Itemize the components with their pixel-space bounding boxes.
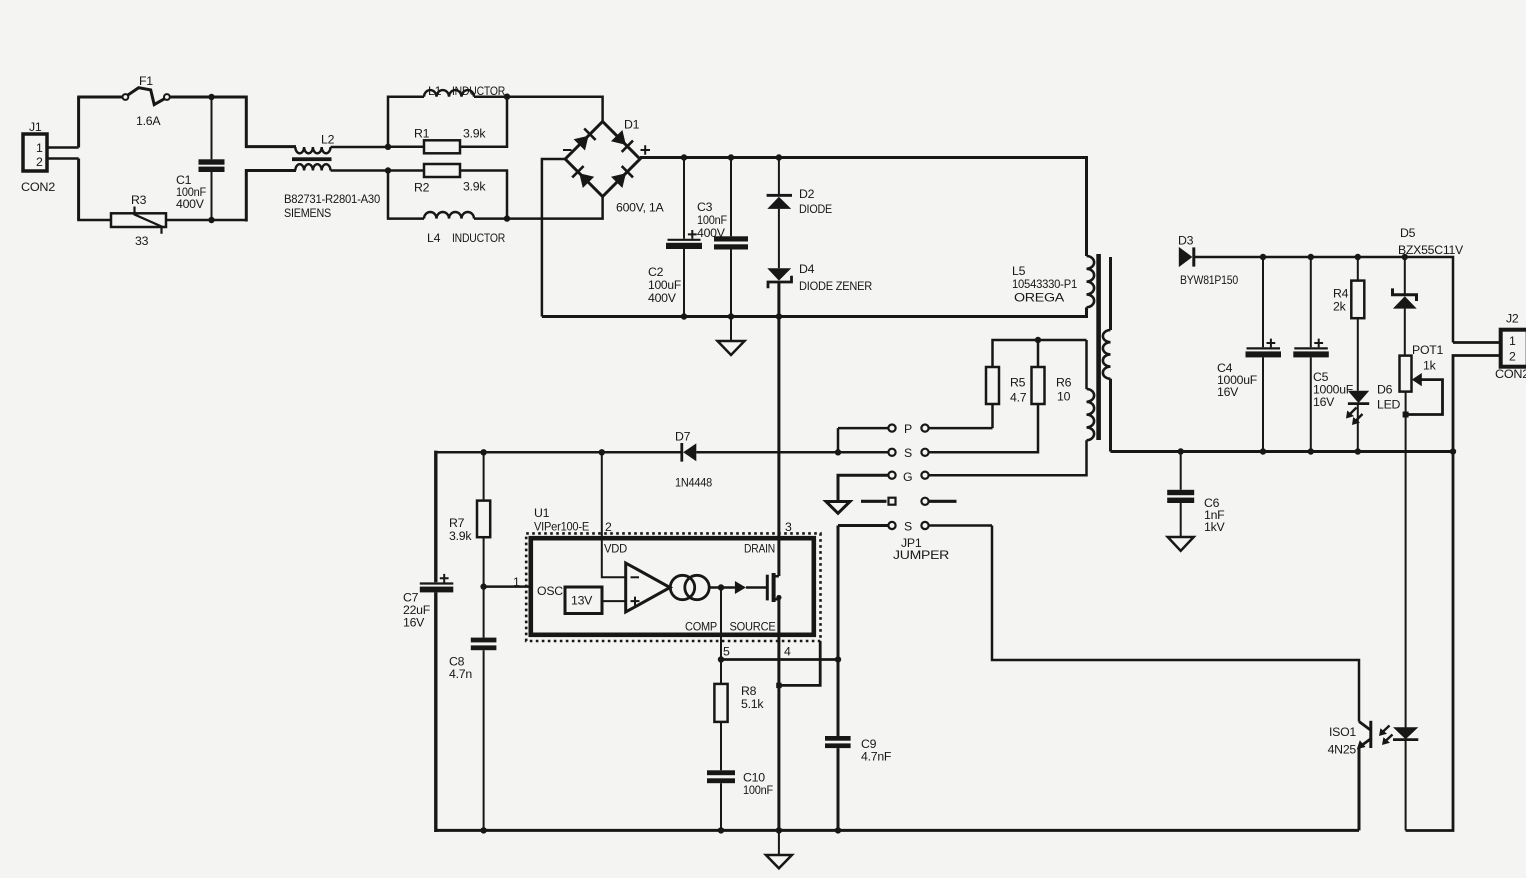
node junction C8 bottom xyxy=(480,827,486,833)
wire L4 to bridge bottom corner xyxy=(474,197,603,219)
potentiometer POT1 1k xyxy=(1400,343,1444,418)
svg-text:LED: LED xyxy=(1377,398,1401,412)
wire POT1 bottom to opto LED xyxy=(1405,415,1407,728)
transformer L5 core xyxy=(1096,254,1101,440)
wire R3 to C1 bottom node and corner x246 xyxy=(166,219,246,222)
ground below G row xyxy=(826,502,850,514)
svg-text:5: 5 xyxy=(723,645,730,659)
op-amp U1 error amplifier xyxy=(626,563,670,612)
svg-text:L5: L5 xyxy=(1012,264,1026,278)
capacitor C6 1nF 1kV xyxy=(1167,452,1225,538)
node junction C5 bottom xyxy=(1308,448,1314,454)
connector J2 (CON2) xyxy=(1495,312,1526,382)
node junction C1 bottom xyxy=(208,217,214,223)
jumper JP1 row S2 xyxy=(838,520,992,534)
svg-text:R1: R1 xyxy=(414,127,430,141)
wire bottom row J1 to R3 xyxy=(77,219,111,222)
node junction D5 top xyxy=(1402,254,1408,260)
svg-text:S: S xyxy=(904,446,912,460)
node junction C9 top xyxy=(835,656,841,662)
svg-text:16V: 16V xyxy=(1217,385,1239,399)
svg-text:INDUCTOR: INDUCTOR xyxy=(452,231,505,245)
node junction C3 top xyxy=(728,154,734,160)
node junction source bottom xyxy=(776,827,782,833)
inductor L4 xyxy=(424,212,505,245)
svg-text:R5: R5 xyxy=(1010,376,1026,390)
svg-text:1: 1 xyxy=(513,575,520,589)
current source symbol xyxy=(670,575,735,599)
node junction pin5/R8 xyxy=(718,656,724,662)
svg-text:400V: 400V xyxy=(176,197,205,211)
svg-text:COMP: COMP xyxy=(685,620,717,634)
transformer L5 auxiliary winding xyxy=(929,340,1095,475)
node junction R7 top xyxy=(480,449,486,455)
bridge rectifier D1 600V 1A xyxy=(563,118,665,215)
svg-text:4.7: 4.7 xyxy=(1010,391,1027,405)
inductor L1 xyxy=(424,84,505,98)
svg-text:BZX55C11V: BZX55C11V xyxy=(1398,243,1464,257)
ground on bottom rail xyxy=(766,830,792,868)
MOSFET U1 output transistor xyxy=(767,573,781,602)
wire L2 top output to filter node xyxy=(331,146,388,149)
svg-text:10543330-P1: 10543330-P1 xyxy=(1012,277,1077,291)
capacitor C5 1000uF 16V xyxy=(1293,257,1353,452)
resistor R1 3.9k xyxy=(388,127,486,154)
node junction clamp top xyxy=(776,154,782,160)
svg-text:3.9k: 3.9k xyxy=(463,180,486,194)
capacitor C8 4.7n xyxy=(449,587,496,831)
ground below C3 xyxy=(718,317,745,356)
svg-text:JUMPER: JUMPER xyxy=(893,548,949,562)
svg-text:100nF: 100nF xyxy=(743,783,774,797)
svg-text:C2: C2 xyxy=(648,265,664,279)
svg-text:G: G xyxy=(903,470,912,484)
node junction filter bottom left xyxy=(385,167,391,173)
wire L1 to bridge top corner xyxy=(474,97,603,122)
svg-text:4.7nF: 4.7nF xyxy=(861,750,892,764)
svg-text:R7: R7 xyxy=(449,516,465,530)
svg-text:3.9k: 3.9k xyxy=(449,529,472,543)
node junction C1 top xyxy=(208,94,214,100)
node junction C10 bottom xyxy=(718,827,724,833)
svg-text:D2: D2 xyxy=(799,187,815,201)
svg-text:R6: R6 xyxy=(1056,376,1072,390)
resistor R8 5.1k xyxy=(714,660,764,771)
wire MOSFET source to pin 4 xyxy=(777,599,780,830)
svg-text:VDD: VDD xyxy=(604,542,627,556)
svg-text:R8: R8 xyxy=(741,684,757,698)
wire fuse to C1 node and corner at x246 xyxy=(170,96,247,99)
capacitor C4 1000uF 16V xyxy=(1217,257,1281,452)
node junction filter top left xyxy=(385,144,391,150)
wire opto LED bottom up xyxy=(1405,740,1407,831)
svg-text:D7: D7 xyxy=(675,430,691,444)
node junction D6 bottom xyxy=(1355,448,1361,454)
node junction return/J2 vertical xyxy=(1450,448,1456,454)
wire right input bus upper segment to L2 top xyxy=(246,96,296,147)
svg-text:P: P xyxy=(904,422,912,436)
svg-text:600V, 1A: 600V, 1A xyxy=(616,201,665,215)
node junction C2 top xyxy=(681,154,687,160)
svg-text:100nF: 100nF xyxy=(697,213,728,227)
wire COMP row to C9 xyxy=(721,658,838,661)
capacitor C3 100nF 400V xyxy=(697,158,748,317)
node junction C5 top xyxy=(1308,254,1314,260)
node junction COMP tap xyxy=(718,584,724,590)
resistor R2 3.9k xyxy=(388,164,486,195)
svg-text:100uF: 100uF xyxy=(648,278,682,292)
connector J1 (CON2) xyxy=(21,120,55,194)
svg-text:1.6A: 1.6A xyxy=(136,114,161,128)
wire bridge minus output to DC minus rail xyxy=(542,159,565,317)
optocoupler ISO1 phototransistor xyxy=(1357,721,1371,831)
node junction pin1/R7/C8 xyxy=(480,583,486,589)
svg-text:1: 1 xyxy=(1509,334,1516,348)
node junction C4 bottom xyxy=(1260,448,1266,454)
transformer L5 secondary winding xyxy=(1103,257,1111,452)
capacitor C2 100uF 400V xyxy=(648,158,702,317)
svg-text:SOURCE: SOURCE xyxy=(730,620,776,634)
svg-text:4.7n: 4.7n xyxy=(449,667,472,681)
svg-text:2: 2 xyxy=(605,520,612,534)
wire pin 5 COMP down xyxy=(720,588,722,660)
wire P row elbow down to VDD rail xyxy=(837,428,840,452)
svg-text:R3: R3 xyxy=(131,193,147,207)
svg-text:D1: D1 xyxy=(624,118,640,132)
resistor R7 3.9k xyxy=(449,452,490,586)
thermistor R3 33 xyxy=(111,193,166,248)
resistor R5 4.7 xyxy=(986,340,1087,428)
svg-text:DIODE: DIODE xyxy=(799,202,832,216)
node junction L1/R1 right xyxy=(504,94,510,100)
svg-text:SIEMENS: SIEMENS xyxy=(284,206,331,220)
svg-text:D5: D5 xyxy=(1400,226,1416,240)
node junction P elbow on VDD rail xyxy=(835,449,841,455)
fuse F1 1.6A xyxy=(123,74,170,128)
node junction C3 bottom xyxy=(728,313,734,319)
capacitor C7 22uF 16V xyxy=(403,451,453,832)
svg-text:16V: 16V xyxy=(1313,395,1335,409)
wire top rail to fuse xyxy=(77,96,123,99)
wire D2 to D4 xyxy=(778,209,780,268)
wire DC minus rail xyxy=(542,307,1087,316)
jumper JP1 row P xyxy=(838,422,993,436)
wire secondary return rail xyxy=(1111,450,1454,453)
svg-text:2k: 2k xyxy=(1333,300,1347,314)
svg-text:F1: F1 xyxy=(139,74,153,88)
svg-text:BYW81P150: BYW81P150 xyxy=(1180,273,1238,287)
svg-text:1: 1 xyxy=(36,141,43,155)
svg-text:L2: L2 xyxy=(321,133,335,147)
svg-text:2: 2 xyxy=(36,155,43,169)
wire R1 right vertical xyxy=(460,97,507,147)
svg-text:D4: D4 xyxy=(799,262,815,276)
svg-text:D6: D6 xyxy=(1377,383,1393,397)
svg-text:L4: L4 xyxy=(427,231,441,245)
reference 13V box xyxy=(565,587,626,614)
capacitor C1 100nF 400V xyxy=(176,97,225,220)
wire J2 pin1 xyxy=(1453,341,1501,344)
gate drive arrow xyxy=(735,581,767,594)
svg-text:S: S xyxy=(904,520,912,534)
svg-text:C3: C3 xyxy=(697,200,713,214)
wire bridge plus output to DC plus rail xyxy=(640,158,1087,257)
svg-text:5.1k: 5.1k xyxy=(741,697,764,711)
wire J1 pin1 to left bus xyxy=(47,146,79,149)
node junction C2 bottom xyxy=(681,313,687,319)
IC U1 VIPer100-E package outline (dashed) xyxy=(526,533,820,641)
wire S2 right to optocoupler xyxy=(992,526,1359,722)
node junction R4 top xyxy=(1355,254,1361,260)
capacitor C10 100nF xyxy=(707,770,774,830)
svg-text:J1: J1 xyxy=(29,120,42,134)
svg-text:OSC: OSC xyxy=(537,584,563,598)
svg-text:4: 4 xyxy=(784,645,791,659)
node junction C4 top xyxy=(1260,254,1266,260)
optocoupler ISO1 4N25 LED xyxy=(1328,725,1419,757)
common-mode choke L2 top winding xyxy=(295,147,330,153)
wire filter left vertical up to L1 row xyxy=(388,97,424,147)
common-mode choke L2 bottom winding xyxy=(295,164,330,170)
svg-text:1N4448: 1N4448 xyxy=(675,476,712,490)
svg-text:OREGA: OREGA xyxy=(1014,291,1065,305)
svg-text:POT1: POT1 xyxy=(1412,343,1444,357)
svg-text:1kV: 1kV xyxy=(1204,520,1225,534)
svg-text:B82731-R2801-A30: B82731-R2801-A30 xyxy=(284,192,380,206)
svg-text:R2: R2 xyxy=(414,181,430,195)
IC U1 inner block xyxy=(531,538,814,635)
svg-text:400V: 400V xyxy=(648,291,677,305)
wire D4 to DC minus rail and drain xyxy=(777,282,780,576)
svg-text:1k: 1k xyxy=(1423,359,1437,373)
capacitor C9 4.7nF xyxy=(825,660,892,831)
svg-text:R4: R4 xyxy=(1333,287,1349,301)
wire filter left vertical down to L4 row xyxy=(388,171,424,219)
svg-text:L1: L1 xyxy=(428,84,442,98)
wire S2 left down to C9 node xyxy=(837,526,840,660)
node junction VDD pin wire xyxy=(599,449,605,455)
node junction R6 top xyxy=(1035,337,1041,343)
wire VDD rail from C7 corner to jumper xyxy=(436,451,681,454)
svg-text:33: 33 xyxy=(135,234,149,248)
choke L2 core bar xyxy=(292,157,332,161)
wire pin 2 VDD into block xyxy=(602,452,626,577)
svg-text:2: 2 xyxy=(1509,350,1516,364)
wire left bus upper segment xyxy=(77,97,80,148)
svg-text:10: 10 xyxy=(1057,390,1071,404)
ground below C6 xyxy=(1168,537,1194,551)
zener diode D4 xyxy=(767,262,872,293)
jumper JP1 row G xyxy=(838,470,1087,501)
svg-text:DRAIN: DRAIN xyxy=(744,542,775,556)
zener diode D5 BZX55C11V xyxy=(1393,226,1465,356)
wire left bus lower segment xyxy=(77,159,80,221)
transformer L5 primary winding xyxy=(1087,256,1095,307)
svg-text:400V: 400V xyxy=(697,226,726,240)
wire pin 1 OSC xyxy=(484,585,531,588)
wire J1 pin2 to left bus xyxy=(47,157,79,160)
svg-text:CON2: CON2 xyxy=(21,180,55,194)
wire R2 right vertical xyxy=(460,171,507,219)
wire secondary plus rail xyxy=(1194,257,1453,343)
diode D3 BYW81P150 xyxy=(1178,234,1238,288)
svg-text:3.9k: 3.9k xyxy=(463,127,486,141)
svg-text:4N25: 4N25 xyxy=(1328,743,1357,757)
node junction R2/L4 right xyxy=(504,215,510,221)
wire J2 pin2 to return xyxy=(1406,356,1501,831)
svg-text:13V: 13V xyxy=(571,594,593,608)
wire right input bus lower segment to L2 bottom xyxy=(246,171,296,222)
svg-text:CON2: CON2 xyxy=(1495,367,1526,381)
svg-text:16V: 16V xyxy=(403,616,425,630)
wire L2 bottom output to filter node xyxy=(331,169,388,172)
diode D7 1N4448 xyxy=(675,430,712,490)
LED D6 xyxy=(1346,383,1401,452)
jumper JP1 open row stubs xyxy=(861,498,957,505)
svg-text:ISO1: ISO1 xyxy=(1329,725,1356,739)
node junction drain / clamp bottom xyxy=(776,313,782,319)
resistor R4 2k xyxy=(1333,257,1364,391)
jumper JP1 row S1 xyxy=(838,446,929,460)
diode D2 xyxy=(767,158,832,217)
node junction C9 bottom xyxy=(835,827,841,833)
source tab strap xyxy=(776,641,820,688)
svg-text:3: 3 xyxy=(785,520,792,534)
node junction C6 top xyxy=(1178,448,1184,454)
svg-text:D3: D3 xyxy=(1178,234,1194,248)
svg-text:DIODE ZENER: DIODE ZENER xyxy=(799,279,872,293)
resistor R6 10 xyxy=(929,340,1072,452)
wire primary ground bottom rail xyxy=(436,829,1359,832)
svg-text:J2: J2 xyxy=(1506,312,1519,326)
svg-text:U1: U1 xyxy=(534,506,550,520)
svg-text:VIPer100-E: VIPer100-E xyxy=(534,520,589,534)
